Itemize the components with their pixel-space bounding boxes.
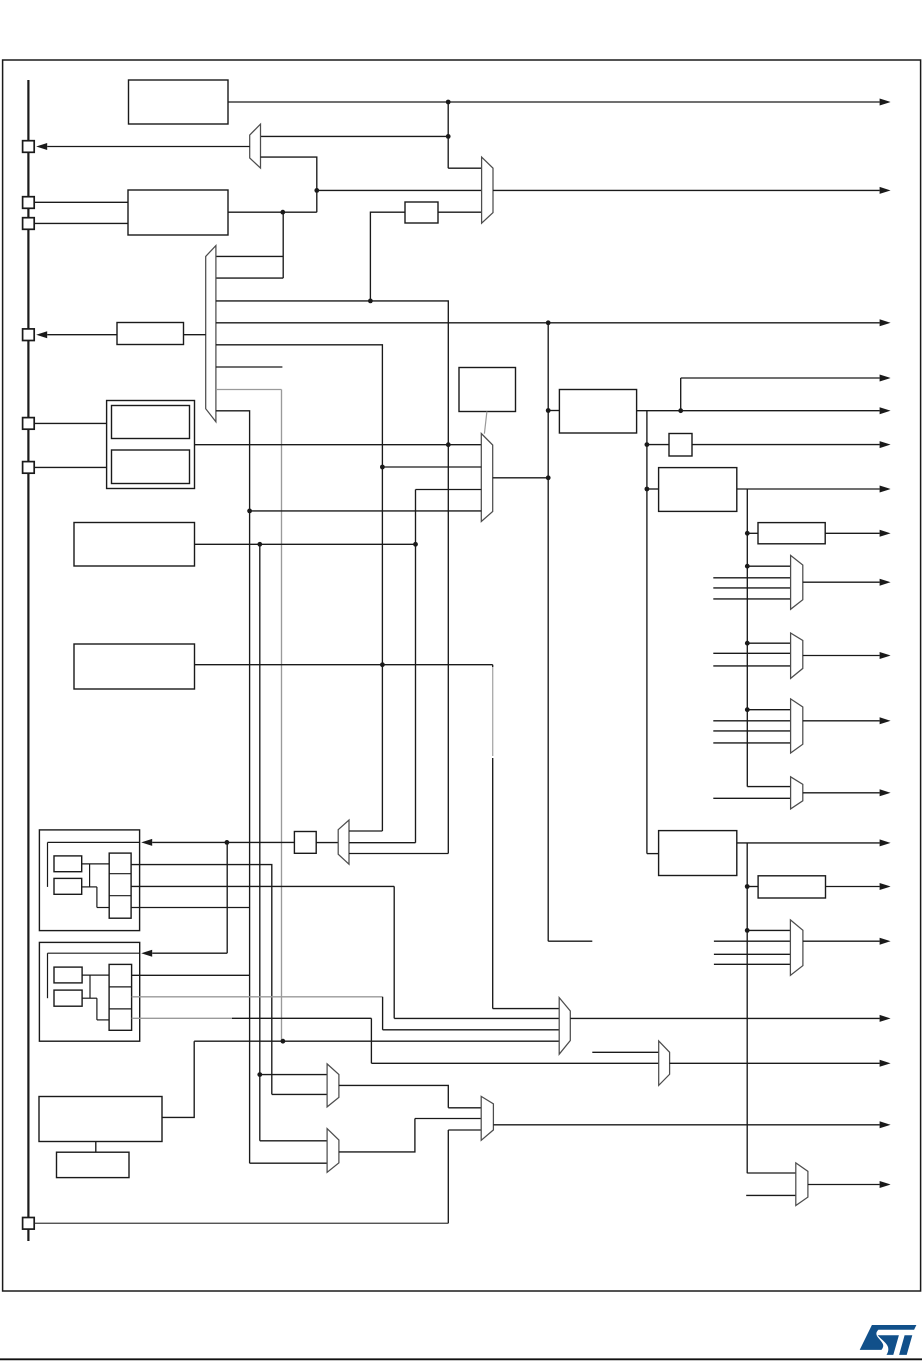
- mux M1: [250, 124, 261, 168]
- wire: mux M3 output: [493, 189, 880, 191]
- wire: mux J input 3: [383, 1029, 560, 1031]
- wire: mux E input 4 stub: [714, 963, 791, 965]
- arrow output 16: [880, 1015, 891, 1022]
- wire: PLL2 tie: [89, 975, 91, 998]
- wire: B6 slant into mux M4 (gray): [484, 412, 487, 434]
- wire: mux H output: [339, 1119, 415, 1152]
- wire: into divider D4: [747, 886, 758, 888]
- junction B1-out / tap: [446, 100, 451, 105]
- junction MSI / column C: [380, 662, 385, 667]
- junction D / muxC: [745, 707, 750, 712]
- wire: pin P5 to B3: [34, 422, 106, 424]
- wire: mux B output: [803, 655, 880, 657]
- wire: tap down to mux M3: [447, 136, 449, 168]
- block PLL2 divM: [54, 967, 82, 983]
- wire: PLL1 out2: [131, 885, 394, 887]
- wire: mux G input 1: [260, 1074, 327, 1076]
- arrow output 5: [880, 407, 891, 414]
- arrow output 1: [880, 99, 891, 106]
- wire: left pin bus: [27, 80, 29, 1241]
- wire: PLL1 m-out: [82, 863, 110, 865]
- wire: mux M2 input f stub: [216, 366, 283, 368]
- divider D0: [405, 202, 438, 223]
- junction LSE-out: [446, 442, 451, 447]
- wire: column A2 (LSI): [259, 544, 261, 1141]
- wire: mux C input 3 stub: [713, 730, 790, 732]
- wire: mux M1 input 1: [261, 135, 449, 137]
- wire: mux A input 2 stub: [713, 577, 790, 579]
- wire: mux J input 1: [493, 1008, 560, 1010]
- wire: tap down: [447, 102, 449, 136]
- wire: B10 to RTC: [95, 1142, 97, 1153]
- wire: mux M1 input 2 riser: [261, 157, 317, 212]
- mux H: [327, 1129, 339, 1173]
- wire: mux M3 input 1: [448, 167, 481, 169]
- wire: mux I input 1: [448, 1107, 481, 1109]
- wire: B9 output: [737, 842, 880, 844]
- footer rule: [0, 1358, 922, 1360]
- wire: mux B input 2 stub: [713, 652, 790, 654]
- wire: mux M2 input a: [216, 255, 283, 257]
- pin P2: [23, 197, 35, 209]
- pin P5: [23, 418, 35, 430]
- mux M4 (system clock): [481, 434, 492, 522]
- wire: mux M2 input g (gray): [216, 389, 282, 391]
- junction A2 / muxG: [257, 1072, 262, 1077]
- wire: LSI output: [195, 543, 416, 545]
- wire: into divider D2: [647, 444, 669, 446]
- wire: LSE output to mux M4: [195, 444, 482, 446]
- block G1: [294, 832, 316, 854]
- wire: riser to arrow 4: [680, 378, 682, 411]
- wire: net drop to LSE junction: [370, 301, 448, 445]
- wire: PLL input stub: [548, 410, 559, 412]
- wire: divider D4 output: [826, 886, 880, 888]
- wire: mux M3 input 3: [438, 211, 482, 213]
- wire: PLL2 out1: [132, 974, 250, 976]
- wire: mux C input 1: [747, 709, 790, 711]
- wire: mux K input 1 stub: [592, 1051, 658, 1053]
- wire: mux G output: [339, 1085, 448, 1107]
- wire: mux E input 2 stub: [714, 940, 791, 942]
- arrow into PLL2: [141, 950, 152, 957]
- divider D3: [758, 523, 825, 544]
- wire: mux L input 1: [747, 1172, 796, 1174]
- wire: mux G input 2: [272, 1093, 327, 1095]
- block B10 (RC oscillator): [39, 1097, 162, 1142]
- wire: mux E input 3 stub: [714, 953, 791, 955]
- wire: PLL1 into R: [97, 907, 109, 909]
- block B2 (HSE oscillator): [128, 190, 228, 235]
- wire: mux M3 input 2: [317, 189, 482, 191]
- junction sysclk: [546, 320, 551, 325]
- wire: PLL1 out1 / column F: [131, 865, 272, 1095]
- wire: mux M4 output: [493, 477, 549, 479]
- wire: mux J input 4 line: [194, 1040, 559, 1042]
- wire: mux C input 2 stub: [713, 720, 790, 722]
- wire: pin P6 to B3: [34, 466, 106, 468]
- wire: mux H input 2: [250, 1162, 328, 1164]
- junction tap / mux M1 feed: [446, 134, 451, 139]
- wire: mux M4 input 2: [382, 466, 481, 468]
- wire: mux A input 3 stub: [713, 587, 790, 589]
- arrow output 8: [880, 530, 891, 537]
- wire: PLL2 column divider a: [109, 986, 132, 988]
- wire: mux C input 4 stub: [713, 742, 790, 744]
- wire: mux M1 output to pin P1: [47, 146, 250, 148]
- wire: mux B input 3 stub: [713, 665, 790, 667]
- block PLL2 divN: [54, 990, 82, 1006]
- wire: mux D input 2 stub: [713, 797, 790, 799]
- wire: G1 to mux F: [316, 842, 338, 844]
- block PLL2 PQR column: [109, 964, 132, 1030]
- wire: arrow 4 line: [681, 377, 880, 379]
- arrow output 2: [880, 187, 891, 194]
- arrow output 18: [880, 1121, 891, 1128]
- wire: mux I input 2: [415, 1118, 481, 1120]
- wire: sysclk column: [547, 323, 549, 941]
- wire: PLL2 into R: [97, 1019, 109, 1021]
- wire: column D (B8 out): [746, 489, 748, 787]
- wire: mux D output: [803, 792, 880, 794]
- wire: pin P2 to B2: [34, 201, 128, 203]
- wire: PLL1 out3: [131, 907, 250, 909]
- junction HSE-out / mux M2 staple: [280, 210, 285, 215]
- wire: PLL1 n-drop: [96, 887, 98, 908]
- wire: mux I input 3: [448, 1129, 481, 1131]
- wire: mux J output: [570, 1017, 879, 1019]
- mux D: [791, 777, 803, 809]
- block PLL1 outer: [39, 830, 139, 931]
- junction LSI / column B: [413, 542, 418, 547]
- arrow output 11: [880, 717, 891, 724]
- wire: PLL2 out3 drop: [370, 1018, 372, 1063]
- block B1 (top-left oscillator): [129, 80, 229, 124]
- wire: PLL output: [637, 410, 880, 412]
- wire: mux F input 2: [349, 842, 416, 844]
- wire: mux M4 input 3: [416, 489, 482, 491]
- wire: MSI drop gray part: [492, 667, 494, 756]
- wire: B8 output: [737, 488, 880, 490]
- arrow output 12: [880, 789, 891, 796]
- wire: MSI drop top: [492, 665, 494, 667]
- mux F (PLL source select): [338, 820, 349, 864]
- arrow output 17: [880, 1060, 891, 1067]
- wire: PLL2 out3 gray part: [132, 1017, 232, 1019]
- mux G: [327, 1064, 339, 1107]
- mux J: [559, 998, 570, 1055]
- arrow output 10: [880, 652, 891, 659]
- arrow output 6: [880, 441, 891, 448]
- block B4 (LSI oscillator): [74, 523, 195, 567]
- junction LSI / column A2: [257, 542, 262, 547]
- wire: mux H input 1: [260, 1140, 327, 1142]
- wire: mux L output: [808, 1184, 880, 1186]
- junction sysclk column: [546, 475, 551, 480]
- wire: pin P3 to B2: [34, 222, 128, 224]
- block B8: [659, 468, 737, 512]
- junction M1in2 / M3in2: [314, 188, 319, 193]
- mux B: [791, 633, 803, 678]
- wire: column G lower (pin net riser): [447, 1130, 449, 1223]
- wire: PLL2 out2 (gray): [132, 996, 383, 998]
- wire: into divider D3: [747, 532, 758, 534]
- wire: divider D0 input drop: [370, 212, 405, 301]
- wire: PLL2 feed: [152, 952, 227, 954]
- wire: sysclk to arrow: [548, 322, 879, 324]
- junction gray column / J4: [281, 1039, 286, 1044]
- pin P7: [23, 1218, 35, 1230]
- wire: divider D1 to pin P4: [47, 334, 117, 336]
- wire: mux A input 4 stub: [713, 598, 790, 600]
- wire: mux C output: [803, 720, 880, 722]
- wire: PLL2 entry: [48, 952, 140, 954]
- wire: divider D3 output: [825, 532, 879, 534]
- mux I: [481, 1096, 493, 1140]
- junction D / muxA: [745, 564, 750, 569]
- wire: mux M2 input b: [216, 277, 283, 279]
- wire: mux M2 input d (sysclk): [216, 322, 548, 324]
- wire: PLL1 n-out: [82, 886, 97, 888]
- wire: PLL2 out3: [232, 1017, 371, 1019]
- wire: divider D2 output: [692, 444, 880, 446]
- wire: PLL1 inner left rail: [47, 842, 49, 887]
- mux L: [796, 1163, 808, 1206]
- wire: into block B8: [647, 488, 659, 490]
- arrow into PLL1: [141, 839, 152, 846]
- wire: mux E output: [803, 940, 880, 942]
- arrow output 3: [880, 319, 891, 326]
- junction E / divider D4: [745, 884, 750, 889]
- mux M2 (MCO select): [206, 246, 216, 422]
- wire: mux M2 input h / column A: [216, 411, 250, 1163]
- wire: PLL2 out2 drop: [382, 997, 384, 1030]
- junction PLL1 feed: [225, 840, 230, 845]
- pin P1: [23, 141, 35, 153]
- wire: PLL1 entry: [48, 841, 140, 843]
- junction PLL-out: [678, 408, 683, 413]
- block B5 (MSI oscillator): [74, 644, 195, 689]
- wire: mux K input 2: [371, 1062, 658, 1064]
- wire: HSE output: [228, 211, 317, 213]
- junction D / divider D3: [745, 531, 750, 536]
- wire: mux M4 input 4: [250, 510, 482, 512]
- block B11 (RTC): [57, 1152, 130, 1177]
- block PLL1 divN: [54, 878, 82, 894]
- arrow output 19: [880, 1181, 891, 1188]
- junction column A / M4in4: [247, 509, 252, 514]
- mux A: [791, 555, 803, 609]
- block PLL1 divM: [54, 856, 82, 872]
- wire: mux A input 1: [747, 565, 790, 567]
- pin P4: [23, 329, 35, 341]
- wire: mux K output: [670, 1062, 880, 1064]
- junction D / muxB: [745, 641, 750, 646]
- wire: gray column: [281, 390, 283, 1042]
- wire: MSI output: [195, 664, 493, 666]
- wire: column E (B9 out): [746, 843, 748, 1173]
- ST logo: [860, 1325, 917, 1355]
- wire: PLL1 column divider a: [109, 873, 131, 875]
- wire: into block G1: [227, 841, 295, 843]
- wire: PLL1 out2 drop: [393, 886, 395, 1018]
- pin P3: [23, 218, 35, 230]
- arrow output 13: [880, 839, 891, 846]
- wire: PLL2 n-out: [82, 997, 97, 999]
- junction sysnet: [368, 299, 373, 304]
- block B7 (PLL): [559, 390, 636, 434]
- junction E / muxE: [745, 928, 750, 933]
- mux K: [659, 1041, 670, 1086]
- wire: PLL column: [646, 411, 648, 854]
- divider D1 (MCO prescaler): [117, 323, 184, 345]
- wire: PLL1 column divider b: [109, 895, 131, 897]
- wire: PLL column into B9: [647, 853, 659, 855]
- junction PLL col / B8: [645, 487, 650, 492]
- wire: mux J input 2: [394, 1017, 559, 1019]
- block PLL1 PQR column: [109, 853, 131, 918]
- divider D4: [758, 876, 825, 898]
- wire: column B: [415, 490, 417, 843]
- block PLL2 outer: [39, 942, 139, 1041]
- wire: mux B input 1: [747, 642, 790, 644]
- arrow output 7: [880, 486, 891, 493]
- block B3 (LSE oscillator outer): [107, 401, 195, 489]
- wire: column G (LSE net): [447, 445, 449, 854]
- junction column C / M4in2: [380, 465, 385, 470]
- wire: PLL1 tie: [89, 864, 91, 887]
- arrow output 4: [880, 375, 891, 382]
- divider D2: [669, 434, 692, 457]
- block B3a: [112, 406, 190, 439]
- arrow output 14: [880, 883, 891, 890]
- wire: PLL2 inner left rail: [47, 953, 49, 998]
- wire: mux F input 3: [349, 853, 448, 855]
- wire: mux I output: [493, 1124, 879, 1126]
- wire: PLL2 column divider b: [109, 1008, 132, 1010]
- wire: mux A output: [803, 581, 880, 583]
- wire: PLL2 n-drop: [96, 998, 98, 1020]
- wire: pin P7 net: [35, 1222, 449, 1224]
- wire: mux M2 input e / MSI column: [216, 345, 383, 831]
- block B3b: [112, 450, 190, 484]
- junction PLL col / D2: [645, 442, 650, 447]
- wire: MSI drop lower: [492, 758, 494, 1009]
- junction sysclk / PLL feed: [546, 408, 551, 413]
- mux M3: [482, 157, 493, 223]
- wire: mux E input 1: [747, 929, 790, 931]
- wire: mux D input 1: [747, 786, 790, 788]
- wire: mux L input 2 stub: [746, 1194, 796, 1196]
- wire: mux M2 input c: [216, 300, 371, 302]
- wire: mux F input 1: [349, 830, 382, 832]
- wire: PLL feed drop: [226, 842, 228, 953]
- wire: PLL2 m-out: [82, 974, 109, 976]
- mux C: [791, 699, 803, 753]
- mux E: [790, 920, 803, 976]
- arrow into pin P4: [36, 331, 47, 338]
- wire: staple riser to mux M2: [282, 212, 284, 278]
- wire: sysclk bottom stub: [548, 940, 592, 942]
- arrow into pin P1: [36, 143, 47, 150]
- pin P6: [23, 462, 35, 474]
- wire: mux M2 output to divider: [184, 334, 206, 336]
- arrow output 15: [880, 938, 891, 945]
- block B9: [659, 831, 737, 876]
- wire: B10 output riser: [162, 1041, 194, 1117]
- wire: B1 output to right arrow: [228, 101, 880, 103]
- arrow output 9: [880, 579, 891, 586]
- block B6: [459, 368, 516, 412]
- wire: mux F output to PLL1: [152, 841, 227, 843]
